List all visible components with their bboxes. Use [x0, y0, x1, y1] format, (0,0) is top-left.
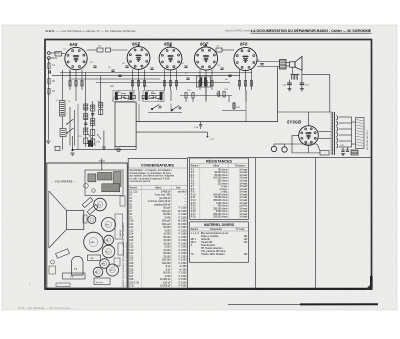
chassis vertical caption: [122, 222, 128, 287]
table resistances: [190, 159, 249, 220]
divider line below schematic (right section): [188, 157, 372, 159]
table condensateurs: [128, 163, 187, 288]
top coupling components C9 row: [212, 46, 234, 53]
header right black title: LA DOCUMENTATION DU DEPANNEUR-RADIO: [251, 28, 372, 33]
resistors under tubes: [69, 70, 253, 91]
capacitors top area: [93, 64, 263, 80]
chassis output socket rect: [94, 278, 110, 285]
top coupling components C4 row: [87, 45, 128, 53]
chassis socket 6F6: [100, 259, 110, 269]
padding capacitor block: [55, 146, 60, 150]
oscillator switch arms: [66, 119, 73, 134]
chassis layout outer box: [47, 163, 128, 288]
header middle imprint text: [225, 30, 252, 33]
capacitor C19: [283, 80, 292, 91]
oscillator block L3 component column B: [91, 101, 95, 147]
fold divider vertical 1: [255, 158, 257, 289]
left column components R1 C2: [48, 58, 56, 140]
chassis label VUE ARRIERE: [51, 179, 76, 184]
chassis dial window: [67, 210, 84, 229]
resistors R5 R6 row: [117, 96, 161, 99]
chassis rear rail CV: [63, 273, 86, 279]
antenna coupling box L2: [60, 129, 66, 137]
dial lamp: [117, 148, 121, 152]
chassis electrolytic can T4: [72, 256, 84, 275]
volume control switch: [148, 105, 182, 113]
main schematic frame border: [45, 40, 372, 291]
IF transformer MF2: [142, 90, 165, 102]
tube V4 6Q7: [194, 42, 217, 71]
chassis IF cans slanted: [82, 197, 98, 214]
wire y121 run: [170, 112, 172, 122]
field coil bobine HP: [352, 118, 370, 151]
footer rule line: [228, 303, 378, 305]
chassis socket MF: [104, 235, 114, 245]
wire AVC bus: [52, 73, 252, 83]
wire B+ line: [278, 67, 330, 122]
antenna terminals: [47, 52, 60, 60]
component value labels: [56, 49, 261, 109]
capacitor C18: [300, 70, 310, 91]
chassis power transformer block: [84, 170, 124, 196]
wire rectifier leads: [278, 112, 333, 153]
wire tube cathode drops: [76, 87, 246, 122]
grid components under 6F6: [222, 102, 246, 111]
dial assembly box: [115, 102, 278, 147]
capacitor C26 C27: [340, 145, 349, 156]
chassis IF can rect MF: [88, 255, 101, 261]
chassis small parts: [49, 196, 125, 287]
tube internal electrodes: [73, 55, 311, 139]
voice coil comb: [290, 67, 299, 79]
wire ground bus: [46, 131, 136, 156]
oscillator block L3 component column A: [84, 101, 88, 147]
wire dial box drops: [115, 147, 136, 150]
chassis socket 5Y3: [107, 264, 119, 276]
table materiel divers: [190, 222, 249, 256]
oscillator trimmer column C: [99, 101, 103, 115]
grid cap leads: [138, 44, 207, 48]
resistances table box: [190, 158, 249, 220]
condensateurs table box: [128, 159, 187, 289]
tube V2 6K7: [127, 42, 150, 70]
fold divider vertical 2: [315, 158, 317, 289]
trimmer box left of 6A8: [55, 52, 65, 57]
footer imprint text: [18, 282, 74, 310]
variable capacitor CV1 CV2: [78, 134, 101, 144]
tube V6 5Y3GB: [287, 120, 318, 146]
chassis socket 6K7: [102, 218, 116, 232]
chassis coil slanted left: [56, 249, 70, 259]
materiel divers table box: [190, 222, 249, 262]
output transformer T2: [257, 60, 290, 70]
detector coil MF3: [197, 76, 211, 87]
interrupteur switch: [320, 151, 329, 156]
chassis antenna lead wire: [99, 159, 106, 171]
chassis socket 70: [88, 216, 96, 224]
IF transformer MF1: [112, 90, 135, 102]
loudspeaker HP: [290, 56, 302, 70]
wire left section: [62, 70, 100, 150]
tube V1 6A8: [65, 42, 87, 70]
chassis socket HP: [93, 267, 103, 277]
chassis socket 6K6: [94, 198, 107, 211]
header left title text: [46, 29, 136, 33]
chassis socket 6A8: [84, 232, 104, 252]
fuse: [351, 150, 358, 155]
detector stage components R10-R15: [180, 89, 232, 102]
tube V5 6F6: [234, 42, 257, 71]
tube V3 6B5: [159, 42, 182, 70]
AC mains plug: [271, 144, 320, 152]
chassis dial beam triangle: [49, 191, 67, 248]
antenna coil L1: [60, 101, 66, 117]
power transformer T1: [330, 112, 352, 155]
chassis socket 6Q7: [102, 245, 115, 258]
padding capacitor dark blob: [88, 141, 97, 148]
